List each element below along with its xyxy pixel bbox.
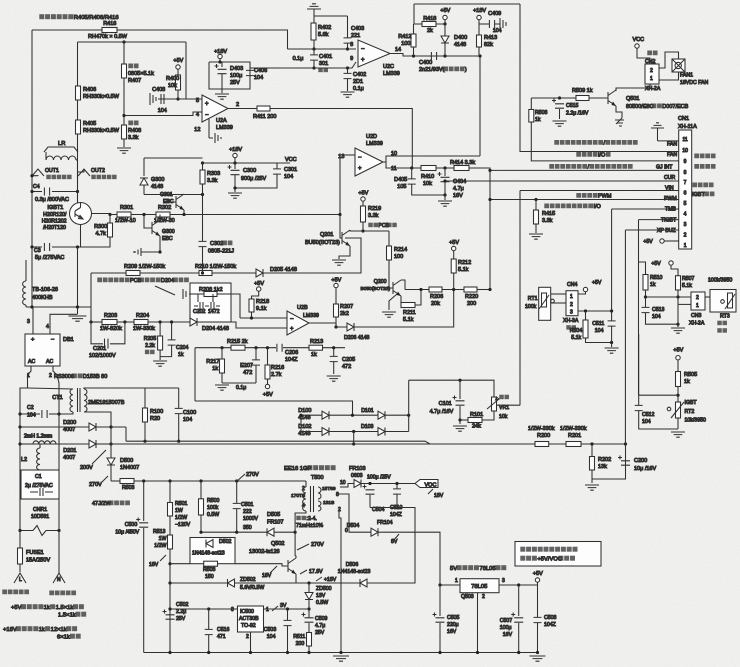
svg-text:G301: G301 — [160, 192, 173, 198]
svg-text:0.5W: 0.5W — [316, 600, 328, 606]
svg-text:RT3: RT3 — [720, 314, 730, 320]
callout 3V — [272, 606, 278, 611]
wire Q201 collector — [350, 230, 389, 231]
wire R207 top — [335, 288, 337, 304]
resistor R220 — [464, 287, 477, 292]
capacitor C301 — [273, 169, 281, 174]
wire D200 row — [20, 426, 89, 428]
svg-text:10k: 10k — [499, 414, 508, 420]
op-amp U2C — [358, 40, 390, 67]
resistor R202 — [590, 457, 595, 471]
svg-text:U2B: U2B — [297, 305, 308, 311]
terminal +5V out — [535, 578, 539, 582]
node C3 b — [76, 245, 79, 248]
node pin11 a — [410, 166, 413, 169]
thermistor RT2 — [676, 402, 681, 418]
node rail sync — [352, 442, 355, 445]
svg-text:OUT1: OUT1 — [45, 168, 59, 174]
wire C3 left — [32, 246, 42, 248]
svg-text:−: − — [290, 317, 294, 323]
wire rail y444 — [111, 443, 535, 445]
terminal +5V R216 — [265, 384, 269, 388]
svg-text:C1: C1 — [35, 474, 42, 480]
wire T500 prim bottom — [295, 511, 306, 556]
wire sec mid — [337, 494, 371, 532]
callout 178V — [300, 570, 307, 574]
svg-text:12×1k: 12×1k — [51, 627, 67, 633]
svg-text:RH330k×0.5W: RH330k×0.5W — [83, 94, 120, 100]
wire R214 top — [388, 231, 390, 246]
svg-text:100k: 100k — [525, 304, 537, 310]
wire R507 bottom — [677, 290, 679, 297]
node gnd mid — [676, 323, 679, 326]
resistor R208 — [204, 292, 217, 297]
wire fan top — [659, 52, 679, 68]
svg-text:25V: 25V — [176, 616, 186, 622]
svg-text:−: − — [358, 155, 362, 161]
diode D500 — [107, 458, 115, 465]
svg-text:100k: 100k — [207, 505, 219, 511]
svg-text:R209 1/2W-150k: R209 1/2W-150k — [124, 264, 165, 270]
svg-text:10k/3950: 10k/3950 — [685, 418, 706, 424]
wire R405 to LR — [77, 134, 79, 203]
wire C201 loop b — [110, 322, 125, 344]
node pin5 start — [488, 198, 491, 201]
wire 5V stub — [444, 20, 446, 24]
svg-text:G300: G300 — [162, 229, 175, 235]
wire fb row b — [235, 564, 288, 566]
wire R505 top — [677, 360, 679, 372]
wire y16 — [314, 15, 348, 17]
svg-text:R510: R510 — [650, 275, 663, 281]
diode D201 — [89, 440, 96, 448]
ground C409 — [495, 18, 506, 30]
wire rail y444 c — [581, 443, 626, 445]
wire Q502 emitter — [295, 574, 297, 583]
node Q201 coll — [361, 229, 364, 232]
wire D505 right — [274, 531, 295, 533]
svg-text:10: 10 — [682, 148, 688, 154]
wire R513 bottom — [169, 549, 171, 653]
resistor R510 — [643, 275, 648, 291]
wire R509 left — [560, 97, 577, 99]
capacitor C200 — [618, 456, 630, 466]
svg-text:D204: D204 — [161, 278, 174, 284]
svg-text:C512: C512 — [642, 412, 655, 418]
svg-text:FAN: FAN — [667, 152, 677, 158]
svg-text:+18V: +18V — [324, 577, 337, 583]
svg-text:RT2: RT2 — [685, 409, 695, 415]
svg-text:5: 5 — [684, 201, 687, 207]
svg-text::2-4.: :2-4. — [306, 516, 316, 522]
svg-text:+5V: +5V — [254, 281, 264, 287]
node C302 bottom — [201, 271, 204, 274]
wire TB bottom — [25, 305, 27, 307]
svg-text:9.1k: 9.1k — [256, 306, 267, 312]
svg-text:B050(SOT23): B050(SOT23) — [361, 286, 391, 292]
diode D506 — [360, 579, 367, 587]
callout 270V — [236, 474, 245, 482]
node R216 top — [266, 346, 269, 349]
svg-text:R100: R100 — [150, 409, 163, 415]
terminal +5V R400 — [176, 65, 180, 69]
wire C503 col — [287, 609, 289, 620]
svg-text:+: + — [361, 57, 365, 63]
wire row y49 — [288, 48, 357, 50]
svg-text:0.1μ: 0.1μ — [353, 86, 364, 92]
svg-text:FR107: FR107 — [267, 520, 284, 526]
wire RT2 row — [639, 394, 678, 396]
wire R412 bottom — [413, 47, 415, 56]
wire R415 bottom — [535, 224, 537, 233]
svg-text:R220: R220 — [465, 294, 478, 300]
svg-text:R415: R415 — [542, 211, 555, 217]
svg-text:100μ: 100μ — [230, 73, 242, 79]
wire sync row2 b — [329, 431, 378, 433]
svg-text:R208 1k2: R208 1k2 — [199, 287, 223, 293]
diode D100 — [322, 411, 329, 419]
svg-text:D500: D500 — [120, 458, 133, 464]
svg-text:R300: R300 — [94, 224, 107, 230]
wire sense row c — [477, 289, 490, 291]
wire sense row b — [442, 289, 464, 291]
svg-text:1: 1 — [684, 243, 687, 249]
svg-text:16V: 16V — [503, 632, 513, 638]
wire R209-R210 — [140, 272, 199, 274]
wire between R406 R405 — [77, 100, 79, 120]
node R303 top — [201, 161, 204, 164]
wire U2D out pin10 — [383, 156, 480, 162]
svg-text:1/2W-330k: 1/2W-330k — [560, 426, 587, 432]
svg-text:200V: 200V — [80, 465, 93, 471]
ground mid — [671, 328, 685, 333]
node R218 join — [250, 316, 253, 319]
ground C101 — [453, 426, 467, 431]
svg-text:5μ /275VAC: 5μ /275VAC — [35, 255, 64, 261]
wire DB1 minus up — [50, 314, 78, 334]
svg-text:FAN: FAN — [667, 142, 677, 148]
svg-text:C401: C401 — [319, 54, 332, 60]
capacitor C201 — [105, 339, 109, 349]
node y68 b — [346, 66, 349, 69]
wire zd row — [170, 582, 228, 584]
diode D102 — [322, 428, 329, 436]
svg-text:11: 11 — [683, 137, 688, 143]
wire R218 top — [252, 291, 259, 299]
resistor R205 — [158, 336, 163, 350]
wire fuse to L — [19, 564, 21, 572]
wire RT2 col up — [638, 334, 640, 395]
wire R202 bottom — [591, 470, 593, 479]
wire gate row b — [131, 214, 156, 216]
svg-text:5.1k: 5.1k — [458, 267, 469, 273]
svg-text:C500: C500 — [125, 522, 138, 528]
wire U2B minus row — [240, 317, 287, 319]
transformer T500 secondary2 — [318, 501, 321, 511]
wire D500 col — [110, 427, 112, 458]
wire sync row2 — [301, 431, 322, 433]
ground bottom — [333, 656, 349, 661]
terminal N — [53, 573, 65, 583]
wire pin3 row — [639, 219, 679, 221]
wire R415 stub — [535, 200, 537, 211]
svg-text:222: 222 — [243, 509, 252, 515]
svg-text:IGBT: IGBT — [685, 400, 698, 406]
node x111 a — [109, 425, 112, 428]
op-amp U2D — [355, 148, 383, 176]
wire 8V row — [378, 532, 440, 585]
svg-text:L2: L2 — [21, 457, 27, 463]
svg-text:10: 10 — [340, 480, 346, 486]
svg-text:1k: 1k — [684, 379, 690, 385]
wire C500 bottom — [143, 528, 145, 653]
svg-text:2ME1915007B: 2ME1915007B — [88, 400, 125, 406]
svg-text:G300: G300 — [151, 177, 164, 183]
resistor R507 — [676, 276, 681, 290]
svg-text:3: 3 — [684, 222, 687, 228]
node C501 top — [235, 479, 238, 482]
svg-text:1W-330k: 1W-330k — [133, 326, 155, 332]
ground 18V box — [215, 94, 229, 99]
wire R400 stubs — [177, 69, 179, 75]
node C3 a — [30, 245, 33, 248]
wire R203-R204 — [117, 321, 134, 323]
svg-text:H20R1202: H20R1202 — [42, 219, 67, 225]
transformer CT1 core — [78, 388, 81, 412]
wire CN3 pin1 — [678, 303, 691, 305]
node 18V box — [218, 60, 221, 63]
svg-text:4007: 4007 — [63, 455, 75, 461]
svg-text:Q201: Q201 — [320, 232, 333, 238]
shield box R208 — [190, 283, 231, 322]
capacitor C302 — [199, 241, 207, 246]
wire ZD500 top — [308, 583, 310, 593]
transistor G300 lower — [152, 220, 160, 236]
node R100 aux — [143, 440, 146, 443]
wire 270V row b — [134, 480, 306, 482]
wire ZD500 bottom — [308, 600, 310, 610]
capacitor C502 — [163, 610, 175, 620]
ground driver — [228, 193, 242, 198]
capacitor C400 — [431, 52, 436, 60]
svg-text:R212: R212 — [458, 260, 471, 266]
diode D200 — [89, 423, 96, 431]
svg-text:4148: 4148 — [151, 184, 163, 190]
svg-text:C301: C301 — [284, 167, 297, 173]
svg-text:R215 2k: R215 2k — [227, 339, 248, 345]
resistor R500 — [199, 499, 204, 515]
wire sync row2 c — [385, 431, 409, 433]
svg-text:R408: R408 — [128, 128, 141, 134]
svg-text:+: + — [290, 326, 294, 332]
svg-text:R507: R507 — [682, 276, 695, 282]
wire R216 drop — [267, 348, 269, 365]
node C515 — [558, 96, 561, 99]
svg-text:8: 8 — [336, 492, 339, 498]
transistor Q501 — [608, 90, 616, 106]
node C504 top — [368, 482, 371, 485]
svg-text:R202: R202 — [598, 457, 611, 463]
resistor R405 — [76, 120, 81, 134]
wire G301 emitter — [183, 210, 185, 215]
svg-text:C202: C202 — [193, 309, 206, 315]
wire bottom bus — [26, 306, 91, 308]
resistor R418 — [422, 22, 436, 27]
svg-text:XH-11A: XH-11A — [678, 124, 697, 130]
wire C1 drop left — [19, 499, 21, 531]
svg-text:EE16 1GP: EE16 1GP — [284, 466, 312, 472]
callout 270Vb — [101, 476, 108, 483]
capacitor C404 — [438, 172, 450, 182]
svg-text:D100: D100 — [298, 408, 311, 414]
svg-text:C302: C302 — [210, 241, 223, 247]
svg-text:1N4148-sot23: 1N4148-sot23 — [192, 551, 225, 557]
svg-text:0805×5.1k: 0805×5.1k — [128, 71, 154, 77]
resistor R200 — [535, 442, 549, 447]
svg-text:R413: R413 — [484, 35, 497, 41]
diode D504 — [371, 528, 378, 536]
svg-text:2: 2 — [482, 594, 485, 600]
capacitor C300 — [228, 165, 240, 175]
svg-text:2.2k: 2.2k — [145, 343, 155, 349]
wire IC500 pin3 left — [170, 608, 209, 610]
svg-text:1k: 1k — [535, 117, 541, 123]
wire C2 row — [20, 413, 40, 415]
svg-text:R416: R416 — [103, 21, 116, 27]
svg-text:1W: 1W — [159, 536, 167, 542]
svg-text:104: 104 — [183, 417, 192, 423]
svg-text:D506: D506 — [346, 562, 359, 568]
svg-text:10k: 10k — [168, 83, 177, 89]
node C404 gnd — [443, 193, 446, 196]
svg-text:C206: C206 — [285, 350, 298, 356]
svg-text:C509: C509 — [315, 616, 328, 622]
wire Q501 emit — [616, 106, 622, 118]
svg-text:C409: C409 — [488, 11, 501, 17]
svg-text:D505: D505 — [267, 512, 280, 518]
wire E207 bottom — [255, 365, 257, 383]
wire C201 loop — [91, 322, 103, 344]
node rail 1 — [168, 651, 171, 654]
wire IC500 pin2 — [250, 632, 252, 653]
wire pin1 stub — [664, 240, 679, 242]
callout 18V — [160, 555, 166, 561]
wire U2A pin12 — [208, 119, 210, 138]
svg-text:78L05: 78L05 — [480, 566, 496, 572]
svg-text:4007: 4007 — [63, 427, 75, 433]
wire zd row b — [235, 582, 361, 584]
svg-text:4: 4 — [302, 503, 305, 509]
callout 18Vc — [316, 577, 322, 581]
inductor L2 — [37, 448, 40, 470]
svg-text:D103: D103 — [361, 424, 374, 430]
svg-text:5.1k: 5.1k — [571, 335, 581, 341]
node out a — [412, 54, 415, 57]
wire rail stub left — [20, 443, 33, 445]
wire R202 drop — [591, 444, 593, 457]
node C500 top — [142, 479, 145, 482]
wire row y42 — [78, 41, 187, 43]
node sync2 — [352, 430, 355, 433]
resistor R204 — [134, 320, 148, 325]
svg-text:13k: 13k — [598, 464, 607, 470]
node rail 8 — [476, 651, 479, 654]
svg-text:C3: C3 — [34, 248, 41, 254]
svg-text:R503: R503 — [122, 485, 135, 491]
wire CN3 to RT3 — [705, 296, 710, 298]
capacitor C509 — [302, 613, 314, 623]
node y68 a — [312, 66, 315, 69]
svg-text:270V: 270V — [89, 482, 102, 488]
wire 78L05 in — [440, 584, 460, 586]
svg-text:+5V: +5V — [173, 58, 183, 64]
wire box row — [192, 293, 204, 295]
wire C302 bottom — [202, 247, 204, 273]
svg-text:104: 104 — [284, 174, 293, 180]
svg-text:7: 7 — [684, 180, 687, 186]
wire C403 bottom — [347, 43, 349, 49]
wire DB1 pin2 — [53, 366, 59, 531]
resistor R203 — [102, 320, 117, 325]
diode ZD502 — [228, 579, 235, 587]
wire R210 to D205 — [212, 272, 256, 274]
node C205 top — [332, 346, 335, 349]
svg-text:C408: C408 — [152, 87, 165, 93]
wire pin8 row — [490, 169, 679, 171]
svg-text:221: 221 — [351, 33, 360, 39]
node C516 top — [207, 607, 210, 610]
node rail 9 — [517, 651, 520, 654]
resistor R407 — [122, 64, 127, 78]
svg-text:+5V: +5V — [449, 240, 459, 246]
wire R507 col down — [677, 297, 679, 324]
node R205 t — [159, 320, 162, 323]
svg-text:16V: 16V — [453, 193, 463, 199]
wire C204 stub — [171, 322, 173, 340]
connector CN4 — [566, 291, 578, 316]
diode D101 — [378, 411, 385, 419]
svg-text:C403: C403 — [351, 26, 364, 32]
wire CT1 bottom-left — [59, 412, 73, 414]
svg-text:R501: R501 — [175, 501, 188, 507]
svg-text:104: 104 — [254, 75, 263, 81]
wire box to U2B — [231, 294, 240, 318]
wire C505 bottom — [439, 623, 441, 653]
wire R402 bottom — [313, 40, 315, 49]
capacitor C505 — [433, 613, 445, 623]
resistor R416 — [102, 28, 117, 33]
wire C300 stem — [234, 163, 236, 169]
svg-text:1k: 1k — [311, 352, 317, 358]
ground main — [69, 316, 87, 321]
ground R217 — [215, 385, 229, 390]
wire C205 drop — [333, 348, 335, 357]
wire 18V box — [209, 62, 250, 89]
node gate mid — [182, 213, 185, 216]
svg-text:C406: C406 — [254, 68, 267, 74]
diode D103 — [378, 428, 385, 436]
svg-text:104: 104 — [642, 419, 651, 425]
capacitor C504 — [363, 485, 375, 495]
wire Q201 base — [340, 215, 342, 239]
svg-text:+: + — [205, 102, 209, 108]
wire 78L05 out — [499, 584, 538, 586]
wire y42 to pin5 — [185, 42, 187, 99]
wire C101 bottom — [459, 406, 461, 420]
wire sync col left — [300, 415, 302, 431]
svg-text:C502: C502 — [176, 602, 189, 608]
svg-text:ZD502: ZD502 — [240, 577, 256, 583]
